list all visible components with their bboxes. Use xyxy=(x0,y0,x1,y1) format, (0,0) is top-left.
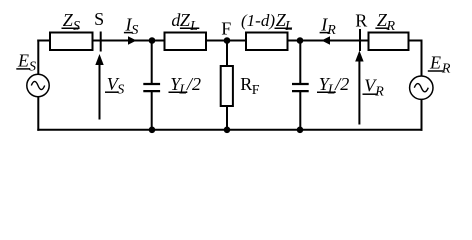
label (1-d)Z_L xyxy=(241,10,293,34)
current arrow I_R xyxy=(322,36,331,44)
junction dot bottom right xyxy=(297,127,304,134)
svg-text:S: S xyxy=(131,23,138,38)
label R_F xyxy=(240,74,260,98)
wire top segment (1-d)Z_L to Z_R xyxy=(287,40,370,42)
source E_S xyxy=(27,74,49,96)
svg-text:L: L xyxy=(284,19,293,34)
svg-text:/2: /2 xyxy=(334,74,349,94)
label Y_L/2 right xyxy=(317,74,349,98)
wire top segment dZ_L to (1-d)Z_L xyxy=(205,40,247,42)
label E_S xyxy=(16,51,36,75)
label V_S xyxy=(105,74,124,98)
current arrow I_S xyxy=(128,36,137,44)
junction dot top right xyxy=(297,37,304,44)
junction dot bottom center xyxy=(224,127,231,134)
svg-text:R: R xyxy=(240,74,252,94)
label dZ_L xyxy=(171,10,199,34)
svg-text:E: E xyxy=(17,51,29,71)
resistor (1-d)Z_L xyxy=(246,33,288,51)
label V_R xyxy=(363,76,385,100)
resistor R_F xyxy=(221,40,233,131)
svg-text:/2: /2 xyxy=(186,74,201,94)
label I_R xyxy=(320,15,337,38)
node S tick xyxy=(100,32,102,52)
capacitor Y_L/2 right xyxy=(292,40,309,131)
junction dot top left xyxy=(149,37,156,44)
svg-text:R: R xyxy=(441,62,451,77)
wire right vertical upper xyxy=(421,40,423,77)
label S xyxy=(94,9,104,29)
label I_S xyxy=(124,15,138,38)
junction dot bottom left xyxy=(149,127,156,134)
voltage arrow V_S xyxy=(95,54,103,120)
svg-text:S: S xyxy=(117,83,124,98)
source E_R xyxy=(410,76,433,99)
svg-text:S: S xyxy=(73,19,80,34)
wire top segment Z_R to right corner xyxy=(408,40,423,42)
node F junction dot xyxy=(224,37,231,44)
wire bottom rail xyxy=(37,129,422,131)
label R xyxy=(355,10,367,30)
svg-text:L: L xyxy=(189,19,198,34)
svg-text:R: R xyxy=(355,10,367,30)
wire right vertical lower xyxy=(421,99,423,131)
svg-text:F: F xyxy=(221,19,231,39)
label Z_S xyxy=(62,10,81,34)
node R tick xyxy=(359,29,361,51)
wire top segment left (source to Z_S) xyxy=(37,40,51,42)
label F xyxy=(221,19,231,39)
resistor Z_R xyxy=(369,33,409,51)
resistor Z_S xyxy=(50,33,93,51)
label E_R xyxy=(428,53,451,77)
svg-text:F: F xyxy=(252,83,260,98)
wire left vertical lower xyxy=(37,96,39,130)
label Y_L/2 left xyxy=(169,74,202,98)
wire left vertical upper xyxy=(37,40,39,75)
svg-text:E: E xyxy=(429,53,441,73)
svg-text:S: S xyxy=(94,9,104,29)
svg-text:R: R xyxy=(326,23,336,38)
wire top segment S to dZ_L xyxy=(91,40,166,42)
label Z_R xyxy=(375,10,395,34)
capacitor Y_L/2 left xyxy=(143,40,160,131)
svg-text:R: R xyxy=(374,85,384,100)
svg-text:S: S xyxy=(29,60,36,75)
voltage arrow V_R xyxy=(355,51,363,125)
svg-text:(1-d): (1-d) xyxy=(241,11,275,30)
resistor dZ_L xyxy=(165,33,207,51)
svg-text:R: R xyxy=(386,19,396,34)
